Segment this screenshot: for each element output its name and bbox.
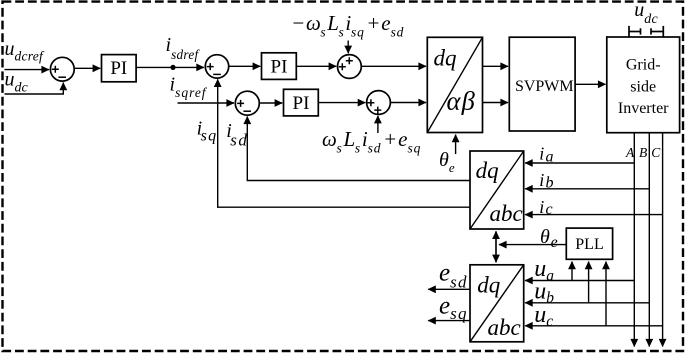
svg-text:B: B: [639, 145, 647, 160]
svg-text:αβ: αβ: [447, 86, 477, 116]
svg-text:PI: PI: [110, 58, 127, 79]
svg-text:Inverter: Inverter: [618, 100, 669, 117]
svg-text:abc: abc: [488, 315, 521, 340]
svg-text:PLL: PLL: [575, 236, 603, 253]
svg-text:A: A: [625, 145, 635, 160]
svg-text:dq: dq: [476, 158, 499, 183]
svg-text:side: side: [630, 79, 656, 96]
svg-text:dq: dq: [477, 273, 500, 298]
svg-text:dq: dq: [434, 46, 457, 71]
svg-text:C: C: [651, 145, 661, 160]
svg-text:SVPWM: SVPWM: [515, 78, 574, 95]
svg-text:Grid-: Grid-: [626, 57, 661, 74]
svg-text:PI: PI: [271, 57, 288, 78]
svg-text:abc: abc: [490, 201, 523, 226]
svg-text:PI: PI: [293, 93, 310, 114]
